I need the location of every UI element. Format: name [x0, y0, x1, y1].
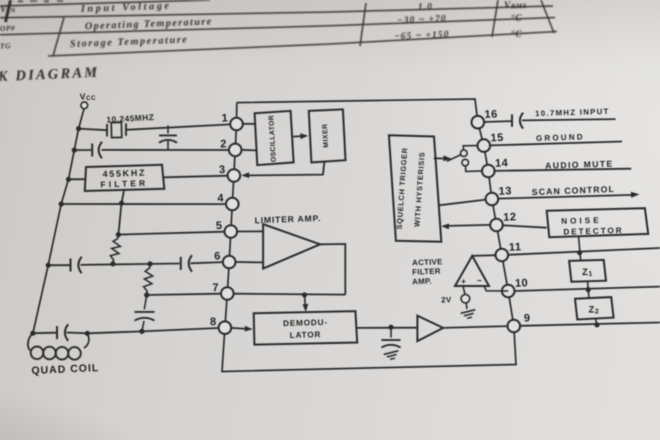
wire pin1 to oscillator [243, 123, 256, 125]
svg-text:13: 13 [498, 185, 512, 197]
switch contact lower [462, 159, 469, 166]
svg-text:AUDIO MUTE: AUDIO MUTE [545, 159, 614, 171]
wire noise detector to Z1 [579, 236, 581, 260]
wire scan control with arrow [498, 195, 633, 199]
pin 5 [225, 225, 238, 238]
pin 12 [490, 219, 503, 232]
pin 1 [230, 118, 243, 131]
svg-text:LIMITER AMP.: LIMITER AMP. [255, 213, 322, 225]
wire pin7 internal [234, 293, 345, 296]
squelch trigger box [389, 135, 441, 241]
pin 10 [502, 285, 515, 298]
svg-text:Z2: Z2 [588, 304, 599, 315]
pin 7 [221, 287, 234, 300]
svg-text:2: 2 [220, 138, 227, 150]
svg-text:3: 3 [219, 164, 226, 176]
wire limiter output [320, 244, 345, 295]
svg-text:QUAD COIL: QUAD COIL [31, 362, 99, 377]
arrow squelch to switch [434, 157, 445, 159]
wire rail to C2 [74, 149, 91, 151]
wire rail to filter [69, 178, 87, 180]
svg-text:10: 10 [515, 277, 529, 289]
wire pin6 to limiter [236, 261, 264, 263]
svg-text:11: 11 [509, 241, 522, 253]
block Z1 [569, 260, 606, 282]
wire pin12 to noise detector [503, 225, 547, 227]
pin 3 [228, 169, 241, 182]
svg-text:5: 5 [216, 220, 223, 232]
ground [384, 351, 400, 361]
svg-text:−: − [477, 276, 482, 286]
wire rail end to C6 [33, 332, 56, 335]
table grid lines [0, 0, 210, 6]
capacitor C1 [167, 125, 169, 133]
pin 8 [219, 321, 232, 334]
wire pin10 [515, 287, 660, 291]
wire Vcc rail [33, 109, 84, 333]
op-amp buffer triangle [417, 316, 443, 341]
capacitor C5 [144, 295, 146, 309]
capacitor C3 [70, 259, 72, 272]
wire audio mute [495, 169, 632, 171]
svg-text:7: 7 [212, 282, 219, 294]
wire pin2 to oscillator [242, 149, 258, 152]
wire buffer to pin9 [443, 326, 507, 328]
wire pin9 [520, 323, 660, 326]
wire rail to pin4 [61, 203, 226, 205]
oscillator U1 [255, 111, 294, 165]
pin 11 [496, 249, 509, 262]
resistor R1 [110, 235, 120, 264]
capacitor C4 [180, 257, 182, 270]
wire junction to pin5 [118, 232, 224, 235]
svg-text:+: + [461, 276, 466, 286]
svg-text:FILTER: FILTER [100, 178, 148, 190]
IC body outline [222, 99, 516, 372]
svg-text:DETECTOR: DETECTOR [563, 226, 623, 237]
svg-text:NOISE: NOISE [561, 216, 602, 226]
svg-text:6: 6 [214, 250, 221, 262]
capacitor C8 [511, 114, 513, 126]
wire C6 to pin8 [67, 328, 219, 333]
resistor R2 [144, 264, 153, 295]
capacitor C6 [56, 326, 58, 339]
svg-text:AMP.: AMP. [412, 277, 432, 287]
svg-text:14: 14 [495, 157, 509, 169]
wire pin12 to squelch with arrow [448, 225, 490, 226]
wire squelch to pin13 [439, 200, 486, 206]
wire active filter output to pin11 [472, 254, 495, 257]
cropped text remnants top edge [18, 0, 23, 3]
wire pin5 to limiter [237, 230, 263, 232]
wire C4 to pin6 [191, 262, 223, 263]
svg-text:10.245MHZ: 10.245MHZ [106, 112, 154, 125]
svg-text:9: 9 [524, 312, 531, 324]
wire mixer output to pin3 [248, 161, 325, 175]
wire Z2 to pin9 wire [595, 319, 597, 325]
pin 6 [223, 256, 236, 269]
wire 10.7MHZ input [522, 119, 616, 120]
pin 16 [472, 116, 485, 129]
455KHZ FILTER box [85, 165, 165, 191]
wire C2 to pin2 [102, 149, 229, 151]
wire demodulator output [357, 327, 417, 329]
Vcc terminal [81, 102, 88, 109]
pin 9 [508, 320, 521, 333]
svg-text:4: 4 [217, 192, 224, 204]
demodulator box [254, 311, 358, 345]
svg-text:15: 15 [490, 132, 504, 144]
svg-text:OSCILLATOR: OSCILLATOR [268, 115, 277, 162]
svg-text:Z1: Z1 [582, 267, 593, 278]
svg-text:16: 16 [484, 108, 498, 120]
wire crystal to pin1 [126, 124, 230, 129]
wire ground [490, 142, 622, 146]
svg-text:LATOR: LATOR [290, 330, 322, 340]
mixer U2 [309, 109, 346, 162]
wire rail to crystal [79, 129, 107, 131]
capacitor C7 [390, 327, 392, 337]
svg-text:DEMODU-: DEMODU- [283, 318, 328, 328]
wire to demodulator with arrow [305, 295, 306, 308]
pin 2 [229, 144, 242, 157]
svg-text:GROUND: GROUND [536, 132, 585, 143]
block Z2 [575, 297, 614, 319]
svg-text:8: 8 [210, 316, 217, 328]
inductor quad coil [28, 333, 33, 350]
wire filter bottom branch [118, 191, 124, 235]
wire filter to pin3 [164, 176, 228, 178]
capacitor C2 [91, 144, 93, 157]
wire Z1 to Z2 [588, 281, 590, 298]
2V reference terminal [463, 286, 465, 294]
svg-text:12: 12 [503, 211, 517, 223]
svg-text:1: 1 [221, 112, 228, 124]
wire pin11 [508, 248, 660, 255]
wire minus input to pin10 [484, 286, 508, 291]
wire C3 to C4 [81, 264, 180, 265]
pin 13 [486, 193, 499, 206]
pin 4 [226, 198, 239, 211]
svg-text:FILTER: FILTER [412, 267, 441, 277]
noise detector box [547, 208, 649, 237]
svg-text:WITH HYSTERISIS: WITH HYSTERISIS [412, 151, 426, 227]
svg-text:VCC: VCC [80, 91, 97, 103]
crystal X1 10.245MHZ [106, 124, 108, 137]
pin 15 [478, 139, 491, 152]
ground [461, 310, 477, 320]
switch contact upper [461, 150, 468, 157]
op-amp limiter triangle [263, 224, 320, 268]
arrow oscillator to mixer [293, 135, 303, 138]
op-amp active filter triangle [455, 256, 489, 286]
wire pin16 to C8 [484, 120, 511, 123]
wire junction to pin7 [147, 294, 221, 295]
svg-text:2V: 2V [441, 295, 452, 304]
wire rail to C3 [48, 264, 69, 266]
svg-text:SQUELCH TRIGGER: SQUELCH TRIGGER [395, 147, 410, 230]
svg-text:MIXER: MIXER [322, 123, 330, 148]
arrow pin8 to demodulator [231, 328, 246, 329]
switch lever [447, 155, 461, 162]
svg-text:10.7MHZ INPUT: 10.7MHZ INPUT [535, 107, 610, 118]
pin 14 [482, 165, 495, 178]
